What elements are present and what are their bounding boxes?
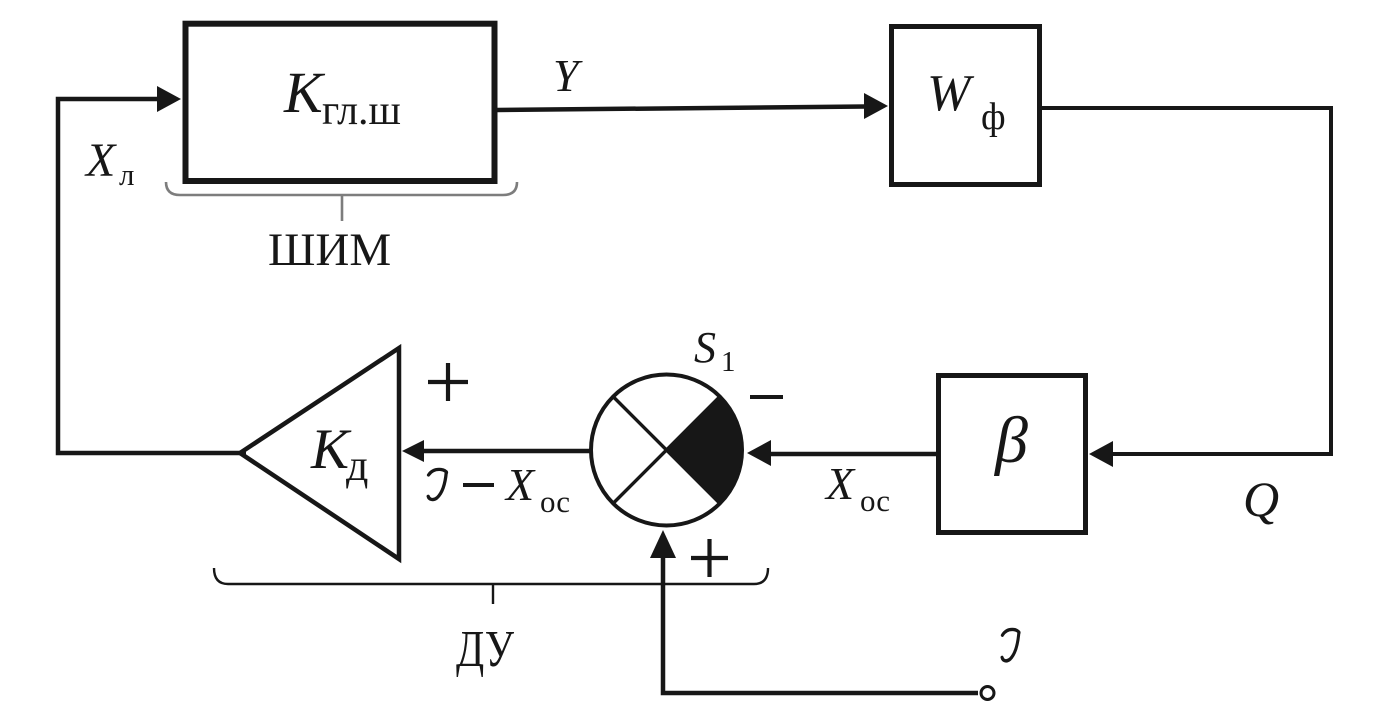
svg-text:ДУ: ДУ bbox=[456, 621, 514, 678]
svg-text:л: л bbox=[119, 157, 134, 192]
svg-text:Q: Q bbox=[1243, 471, 1279, 527]
svg-text:ос: ос bbox=[540, 484, 570, 519]
svg-text:W: W bbox=[927, 65, 975, 122]
svg-text:β: β bbox=[993, 404, 1028, 477]
svg-text:1: 1 bbox=[721, 346, 736, 378]
svg-text:S: S bbox=[694, 323, 716, 372]
svg-text:ф: ф bbox=[981, 96, 1006, 138]
svg-text:K: K bbox=[283, 60, 326, 125]
svg-text:Y: Y bbox=[553, 50, 583, 101]
svg-text:ос: ос bbox=[860, 483, 890, 518]
svg-text:гл.ш: гл.ш bbox=[322, 88, 401, 134]
svg-text:X: X bbox=[504, 459, 536, 510]
svg-text:ШИМ: ШИМ bbox=[268, 224, 391, 276]
svg-text:X: X bbox=[824, 458, 856, 509]
svg-text:д: д bbox=[346, 441, 368, 490]
svg-text:X: X bbox=[84, 134, 117, 187]
